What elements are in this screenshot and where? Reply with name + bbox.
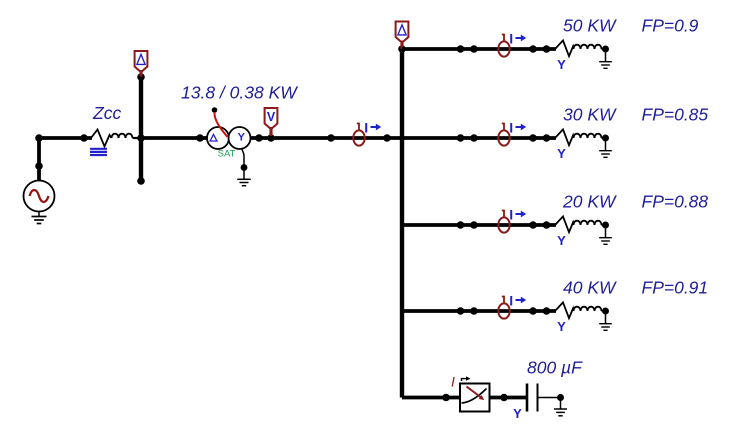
wire: branch at y=311 from bus to load (402, 309, 556, 313)
current sensor stem (502, 297, 504, 304)
current sensor ellipse (498, 303, 509, 318)
current sensor stem (502, 35, 504, 42)
label I with arrow (510, 123, 512, 133)
svg-text:Y: Y (238, 132, 246, 144)
node dot (383, 134, 391, 142)
bus: left vertical bus (139, 77, 143, 181)
delta mark (210, 134, 217, 141)
wire: bottom branch to breaker (402, 396, 461, 400)
svg-text:FP=0.88: FP=0.88 (642, 192, 709, 212)
junction dots on branch (457, 134, 465, 142)
load inductor (574, 307, 602, 311)
probe stem (400, 41, 403, 49)
node: load end dot (602, 135, 609, 142)
svg-text:Y: Y (557, 57, 566, 72)
ground (560, 398, 562, 410)
breaker blade curve (462, 389, 487, 404)
junction dots on branch (457, 45, 465, 53)
wire: bus to transformer (141, 136, 208, 140)
label I with arrow (510, 296, 512, 306)
node dots after transformer (255, 134, 263, 142)
resistor Zcc zigzag (91, 130, 112, 147)
current sensor stem (502, 211, 504, 218)
current sensor ellipse (353, 130, 364, 145)
ground under source (38, 212, 40, 217)
current sensor ellipse (498, 130, 509, 145)
node: bus top corner dot (398, 45, 406, 53)
voltmeter probe delta (bus top) (396, 22, 409, 42)
svg-text:40 KW: 40 KW (563, 278, 617, 298)
svg-text:V: V (267, 110, 276, 124)
ac source VS1 (24, 181, 55, 212)
breaker trip line with arrow (467, 387, 481, 398)
junction dots (529, 134, 537, 142)
junction dots (529, 221, 537, 229)
wire: secondary neutral (242, 149, 245, 167)
node: dot on horizontal (80, 134, 88, 142)
svg-text:800 µF: 800 µF (527, 358, 583, 378)
probe stem (139, 71, 142, 77)
breaker box S1 (460, 384, 490, 412)
load inductor (574, 45, 602, 49)
svg-text:Y: Y (513, 406, 522, 421)
saturation curve (214, 112, 227, 137)
svg-text:FP=0.9: FP=0.9 (642, 16, 699, 36)
wire: source riser (37, 138, 41, 182)
svg-text:SAT: SAT (218, 149, 236, 160)
capacitor C1 plates (526, 384, 529, 412)
node: dot on riser (35, 162, 43, 170)
voltmeter probe delta (left bus) (135, 51, 148, 71)
node: bus junction dot (137, 134, 145, 142)
wire: transformer to bus 2 (250, 136, 402, 140)
node: bus bottom dot (137, 177, 145, 185)
junction dots (529, 45, 537, 53)
svg-text:I: I (451, 374, 455, 390)
node: load end dot (602, 308, 609, 315)
junction dots (529, 307, 537, 315)
ground (605, 311, 607, 324)
ground (605, 49, 607, 62)
current sensor stem (502, 124, 504, 131)
current sensor stem (357, 124, 359, 131)
node: load end dot (602, 46, 609, 53)
node dot before transformer (196, 134, 204, 142)
saturation node dot (212, 107, 218, 113)
label I with arrow (365, 123, 367, 133)
label I with arrow (510, 210, 512, 220)
node dot (557, 394, 564, 401)
node dot (442, 394, 450, 402)
load resistor (555, 129, 574, 145)
svg-text:Y: Y (557, 146, 566, 161)
node dot (327, 134, 335, 142)
load inductor (574, 221, 602, 225)
load resistor (555, 216, 574, 232)
node: corner dot (35, 134, 43, 142)
svg-text:20 KW: 20 KW (562, 192, 617, 212)
inductor Zcc humps (112, 134, 133, 138)
svg-text:30 KW: 30 KW (563, 105, 617, 125)
svg-text:Y: Y (557, 233, 566, 248)
node dot (500, 394, 508, 402)
ground (605, 138, 607, 151)
wire: source to Zcc (37, 136, 92, 140)
saturable core marks (triple blue lines) (90, 148, 107, 150)
wire: capacitor to ground (538, 397, 561, 399)
wire: Zcc to bus (133, 137, 144, 139)
node: bus top dot (137, 73, 145, 81)
voltmeter probe V (265, 108, 278, 128)
svg-text:FP=0.85: FP=0.85 (642, 105, 709, 125)
label I with arrow (510, 34, 512, 44)
bus: right vertical bus (400, 49, 404, 398)
ground (605, 225, 607, 238)
transformer T1 primary winding (207, 127, 229, 149)
wire: branch at y=49 from bus to load (402, 47, 556, 51)
svg-text:Zcc: Zcc (92, 103, 121, 123)
wire: branch at y=138 from bus to load (402, 136, 556, 140)
wire: branch at y=225 from bus to load (402, 223, 556, 227)
node: load end dot (602, 222, 609, 229)
svg-text:50 KW: 50 KW (563, 16, 617, 36)
small arrow above box (462, 379, 467, 381)
svg-text:FP=0.91: FP=0.91 (642, 278, 709, 298)
svg-text:Y: Y (557, 319, 566, 334)
current sensor ellipse (498, 217, 509, 232)
ground (transformer neutral) (243, 168, 245, 180)
load inductor (574, 134, 602, 138)
node: neutral dot (241, 164, 248, 171)
load resistor (555, 40, 574, 56)
probe stem (269, 128, 272, 137)
junction dots on branch (457, 221, 465, 229)
transformer T1 secondary winding (229, 127, 251, 149)
wire: breaker to capacitor (490, 396, 527, 400)
current sensor ellipse (498, 41, 509, 56)
junction dots on branch (457, 307, 465, 315)
load resistor (555, 302, 574, 318)
svg-text:13.8 / 0.38 KW: 13.8 / 0.38 KW (181, 83, 298, 103)
